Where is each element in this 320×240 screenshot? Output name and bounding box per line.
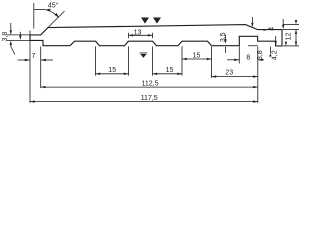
- wire: 15a extension lines: [95, 46, 97, 75]
- wire: 15a dim line: [96, 73, 129, 75]
- wire: tongue top extension left: [7, 34, 30, 36]
- arrowheads 117.5: [30, 100, 35, 102]
- wire: 15c dim line: [182, 58, 212, 60]
- wire: 3.8 bottom arrow stem: [10, 44, 12, 47]
- svg-text:15: 15: [166, 67, 174, 74]
- wire: 13 extension lines: [128, 33, 130, 38]
- arrowhead 7 right (pointing left at chamfer ext): [41, 59, 46, 61]
- surface mark small mid-bottom triangle: [140, 54, 146, 58]
- arrowhead 3.8 top (down): [10, 30, 12, 34]
- wire: right bottom extension: [283, 45, 299, 47]
- surface mark triangle 1: [141, 18, 149, 24]
- wire: second left arrow stem: [19, 32, 21, 37]
- arrowhead slope column (down): [251, 23, 253, 27]
- svg-text:3,5: 3,5: [220, 32, 227, 42]
- wire: 7 dim line left part: [18, 59, 31, 61]
- wire: 3.8 top arrow stem: [10, 23, 12, 32]
- wire: 3.8 leader zigzag: [11, 47, 15, 55]
- wire: 7 dim line right part: [41, 59, 53, 61]
- arrowhead right-bottom extra (down): [285, 42, 287, 46]
- svg-text:23: 23: [225, 69, 233, 76]
- wire: 45deg arc: [46, 10, 59, 18]
- svg-text:117,5: 117,5: [141, 95, 158, 102]
- svg-text:4: 4: [268, 27, 275, 31]
- arrowheads 12: [295, 30, 297, 34]
- wire: 8 dim line left part: [227, 59, 239, 61]
- svg-text:12: 12: [286, 33, 293, 41]
- wire: 8 left extension: [238, 46, 240, 63]
- wire: 8 dim line right part: [258, 59, 264, 61]
- arrowheads 15a: [96, 73, 101, 75]
- arrowhead 4 small leader: [264, 29, 268, 31]
- wire: right top surface extension: [283, 24, 299, 26]
- arrowheads 15b: [153, 73, 158, 75]
- wire: right lip top extension: [283, 29, 299, 31]
- arrowhead 4.2 pointer (down): [275, 41, 277, 45]
- profile outline of board cross-section: [30, 25, 282, 46]
- arrowheads 15c: [182, 58, 187, 60]
- wire: 3.5 lower stem: [225, 47, 227, 53]
- svg-text:15: 15: [193, 52, 201, 59]
- arrowhead 45deg arc top (left): [46, 9, 51, 12]
- svg-text:15: 15: [108, 67, 116, 74]
- arrowheads 23: [212, 75, 217, 77]
- svg-text:13: 13: [134, 30, 142, 37]
- arrowhead 8 left (pointing right): [234, 59, 239, 61]
- wire: 12 dim line: [295, 30, 297, 46]
- arrowhead 8 right (pointing left): [258, 59, 263, 61]
- wire: 23 dim line: [212, 76, 258, 78]
- surface mark overline: [140, 52, 148, 55]
- wire: 13 dim line: [129, 34, 153, 36]
- arrowhead 4.2 leader (up): [269, 53, 271, 57]
- arrowheads 112.5: [41, 86, 46, 88]
- arrowhead 4 ext column (down): [295, 20, 297, 24]
- wire: left edge / 117.5 extension: [29, 31, 31, 104]
- svg-text:7: 7: [31, 53, 35, 60]
- wire: base bottom extension right: [248, 45, 258, 47]
- svg-text:3,8: 3,8: [257, 50, 264, 60]
- surface mark triangle 2: [153, 18, 161, 24]
- wire: 3.5 upper stem: [225, 35, 227, 41]
- wire: 112.5 dim line: [41, 86, 258, 88]
- wire: 4.2 pointer stem: [275, 36, 277, 41]
- wire: chamfer extension line: [48, 11, 65, 28]
- wire: 15b dim line: [153, 73, 183, 75]
- wire: 15b extension lines: [152, 46, 154, 75]
- wire: tongue bottom extension left: [7, 39, 43, 41]
- arrowhead 7 left (tip at edge): [25, 59, 30, 61]
- wire: 4.2 extension: [270, 47, 272, 54]
- svg-text:3,8: 3,8: [2, 32, 9, 42]
- arrowhead lip column (down): [282, 25, 284, 29]
- wire: right terminal extension: [257, 46, 259, 103]
- wire: 4 outside arrow stem: [295, 20, 297, 22]
- wire: 45deg vertical extension: [33, 3, 35, 29]
- svg-text:8: 8: [246, 54, 250, 61]
- arrowhead 3.8 bottom (up): [10, 41, 12, 45]
- svg-text:112,5: 112,5: [142, 81, 159, 88]
- arrowhead 45deg arc bottom: [55, 13, 59, 18]
- wire: 7 right / 112.5 extension: [40, 47, 42, 89]
- svg-text:4,2: 4,2: [272, 50, 279, 60]
- arrowhead second left (down): [19, 36, 21, 40]
- arrowhead 3.5 down: [224, 39, 226, 43]
- wire: lip arrow stem: [282, 19, 284, 27]
- arrowheads 13: [129, 34, 134, 36]
- svg-text:45°: 45°: [48, 1, 59, 9]
- wire: 15c right extension: [211, 46, 213, 78]
- wire: 117.5 dim line: [30, 101, 258, 103]
- wire: 45deg horizontal reference: [34, 8, 46, 10]
- wire: slope arrow stem: [251, 17, 253, 25]
